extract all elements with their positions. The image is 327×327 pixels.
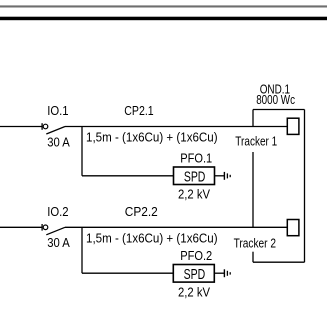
svg-text:CP2.1: CP2.1 xyxy=(124,103,153,118)
inverter OND.1 outline left edge segment 2 xyxy=(252,152,254,227)
tracker 1 input terminal rect xyxy=(287,118,299,134)
breaker IO.2 contact tick xyxy=(41,224,43,231)
wire PFO.2 to ground xyxy=(214,272,224,274)
cable label string2 xyxy=(86,230,218,245)
surge arrester PFO.1 SPD text xyxy=(184,169,206,186)
inverter OND.1 outline bottom edge xyxy=(253,261,305,263)
wire string2 incoming xyxy=(0,226,42,228)
label Tracker 1 xyxy=(235,134,277,149)
label 30 A string2 xyxy=(47,235,70,250)
inverter OND.1 outline left edge segment 3 xyxy=(252,252,254,263)
svg-text:PFO.1: PFO.1 xyxy=(180,151,212,166)
label CP2.2 xyxy=(125,204,158,219)
svg-text:1,5m - (1x6Cu) + (1x6Cu): 1,5m - (1x6Cu) + (1x6Cu) xyxy=(86,230,218,245)
svg-text:IO.2: IO.2 xyxy=(47,204,68,219)
ground symbol PFO.2 xyxy=(224,269,230,277)
label 2,2 kV string1 xyxy=(178,187,210,202)
breaker IO.1 blade xyxy=(46,127,65,135)
svg-text:SPD: SPD xyxy=(184,169,206,186)
wire string2 to inverter xyxy=(65,226,287,228)
svg-text:2,2 kV: 2,2 kV xyxy=(178,284,210,299)
surge arrester PFO.2 SPD text xyxy=(184,266,206,283)
breaker IO.1 contact tick xyxy=(41,123,43,130)
tracker 2 input terminal rect xyxy=(287,220,299,236)
svg-text:1,5m - (1x6Cu) + (1x6Cu): 1,5m - (1x6Cu) + (1x6Cu) xyxy=(86,130,218,145)
label PFO.1 xyxy=(180,151,212,166)
svg-text:8000 Wc: 8000 Wc xyxy=(256,92,295,107)
wire SPD branch horizontal string1 xyxy=(82,175,174,177)
breaker IO.2 blade xyxy=(46,227,65,235)
breaker IO.2 hinge circle xyxy=(43,225,48,230)
ground symbol PFO.1 xyxy=(224,172,230,180)
label 8000 Wc xyxy=(256,92,295,107)
svg-text:30 A: 30 A xyxy=(47,134,70,149)
svg-text:Tracker 2: Tracker 2 xyxy=(234,236,276,251)
svg-text:PFO.2: PFO.2 xyxy=(180,248,212,263)
label CP2.1 xyxy=(124,103,153,118)
busbar thin gray line xyxy=(0,5,327,7)
svg-text:IO.1: IO.1 xyxy=(47,103,68,118)
label IO.2 xyxy=(47,204,68,219)
label OND.1 xyxy=(260,82,290,97)
label Tracker 2 xyxy=(234,236,276,251)
breaker IO.1 hinge circle xyxy=(43,124,48,129)
busbar thick black line xyxy=(0,17,327,21)
svg-text:2,2 kV: 2,2 kV xyxy=(178,187,210,202)
wire string1 incoming xyxy=(0,126,42,128)
label 2,2 kV string2 xyxy=(178,284,210,299)
svg-text:CP2.2: CP2.2 xyxy=(125,204,158,219)
surge arrester PFO.1 box xyxy=(174,167,215,185)
surge arrester PFO.2 box xyxy=(173,265,214,283)
wire SPD branch drop string1 xyxy=(81,127,83,176)
wire PFO.1 to ground xyxy=(215,175,225,177)
wire SPD branch horizontal string2 xyxy=(82,272,173,274)
inverter OND.1 outline right edge xyxy=(304,110,306,263)
svg-text:SPD: SPD xyxy=(184,266,206,283)
label PFO.2 xyxy=(180,248,212,263)
svg-text:30 A: 30 A xyxy=(47,235,70,250)
wire SPD branch drop string2 xyxy=(81,227,83,273)
cable label string1 xyxy=(86,130,218,145)
label 30 A string1 xyxy=(47,134,70,149)
label IO.1 xyxy=(47,103,68,118)
inverter OND.1 outline left edge segment 1 xyxy=(252,110,254,127)
inverter OND.1 outline top edge xyxy=(253,109,305,111)
svg-text:Tracker 1: Tracker 1 xyxy=(235,134,277,149)
wire string1 to inverter xyxy=(65,126,287,128)
